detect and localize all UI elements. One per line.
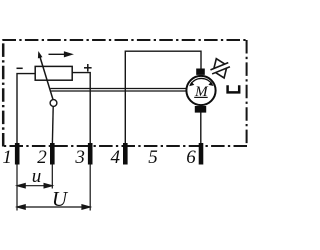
wire resistor right to terminal3, plus node xyxy=(72,73,90,143)
wire terminal4 up and over to motor top xyxy=(125,51,201,143)
interference suppressor (back-to-back diodes) xyxy=(207,55,233,81)
svg-text:3: 3 xyxy=(74,147,85,168)
dash-dot enclosure border right xyxy=(246,40,248,146)
resistor R (potentiometer body) xyxy=(35,66,72,80)
dimension extension line terminal2 xyxy=(51,165,53,189)
terminal 4 pin bar xyxy=(123,143,128,165)
motor M1 body circle xyxy=(186,76,215,105)
dash-dot enclosure border bottom xyxy=(3,145,248,147)
terminal 3 pin bar xyxy=(88,143,93,165)
plus polarity label xyxy=(84,64,92,72)
svg-text:4: 4 xyxy=(111,147,121,168)
underline of M xyxy=(194,96,208,98)
potentiometer wiper arrow (diagonal) xyxy=(38,51,53,100)
minus polarity label xyxy=(17,67,23,69)
motor brush top xyxy=(196,69,205,75)
svg-text:6: 6 xyxy=(186,147,196,168)
terminal 6 pin bar xyxy=(199,143,204,165)
terminal 1 pin bar xyxy=(15,143,20,165)
svg-text:2: 2 xyxy=(37,147,47,168)
motor rotation direction arc xyxy=(190,78,212,84)
dash-dot enclosure border top xyxy=(3,40,248,147)
svg-text:u: u xyxy=(32,166,42,187)
connector bracket symbol xyxy=(228,85,240,92)
svg-text:1: 1 xyxy=(2,147,12,168)
wire terminal1 to resistor left xyxy=(17,74,35,143)
double signal wires from wiper to motor xyxy=(50,88,186,90)
wiper contact circle xyxy=(50,100,57,107)
wire wiper circle to terminal2 xyxy=(51,107,54,144)
wire motor bottom to terminal6 xyxy=(200,113,202,144)
dimension line U (terminal1-terminal3) xyxy=(17,205,90,209)
svg-text:5: 5 xyxy=(148,147,158,168)
adjustment arrow above resistor xyxy=(49,52,72,56)
dimension extension line terminal1 xyxy=(16,165,18,211)
terminal 2 pin bar xyxy=(50,143,55,165)
motor brush bottom xyxy=(195,106,206,113)
dimension extension line terminal3 xyxy=(89,165,91,211)
dimension line u (terminal1-terminal2) xyxy=(17,184,52,188)
svg-text:U: U xyxy=(52,187,69,211)
dash-dot enclosure border left xyxy=(2,40,5,147)
